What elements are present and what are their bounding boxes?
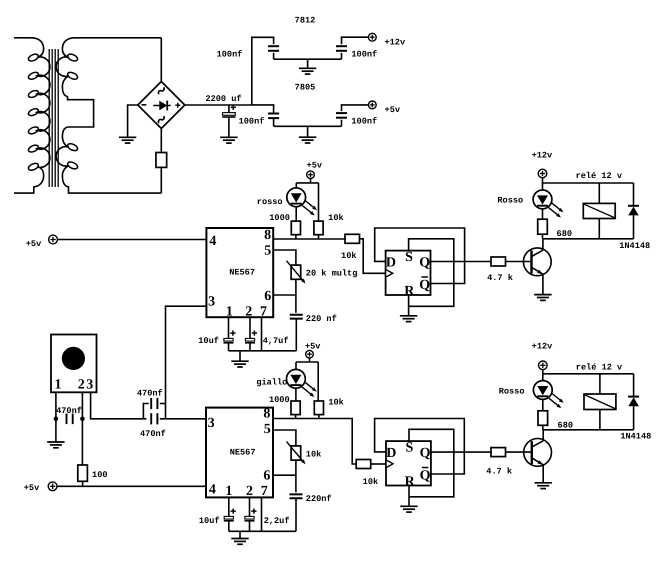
svg-text:4,7uf: 4,7uf <box>263 336 289 346</box>
svg-text:470nf: 470nf <box>137 388 163 398</box>
svg-text:4.7 k: 4.7 k <box>487 273 513 283</box>
svg-text:R: R <box>404 284 415 299</box>
svg-text:3: 3 <box>208 294 215 309</box>
wire to 7812 input <box>252 37 274 105</box>
wire R11 to collector rail <box>542 425 544 430</box>
ground U1 bottom <box>231 351 248 367</box>
U1 pin 8 number <box>264 228 271 243</box>
svg-text:10k: 10k <box>328 398 343 408</box>
IC U3 NE567 body <box>206 408 273 498</box>
capacitor C7 10uf <box>224 331 236 343</box>
capacitor C14 2,2uf <box>245 509 257 521</box>
wire C13 to rail <box>228 521 230 532</box>
wire U4 S loop <box>409 429 454 497</box>
wire bridge + output rail <box>185 104 252 106</box>
wire pin2 to R6 <box>81 419 83 465</box>
ground Q2 <box>535 483 552 489</box>
terminal +5v (giallo) <box>306 350 314 358</box>
label C4 100nf <box>239 116 265 126</box>
label +12v (power) <box>384 37 405 47</box>
U4 label Qbar <box>420 468 431 484</box>
resistor R8 10k <box>314 401 323 415</box>
svg-text:1000: 1000 <box>269 213 290 223</box>
wire split to R8 <box>317 362 319 401</box>
wire upper collector rail <box>543 238 634 240</box>
wire C11 to U3 pin3 <box>160 418 206 420</box>
U2 label Q <box>419 256 430 271</box>
U3 pin 7 number <box>261 484 268 499</box>
wire R6 to +5v rail <box>82 481 84 486</box>
svg-text:5: 5 <box>264 243 271 258</box>
svg-text:7812: 7812 <box>295 15 316 25</box>
svg-text:D: D <box>386 446 396 461</box>
ground under C1 <box>220 137 237 143</box>
ground MIC1 <box>47 442 64 448</box>
label R3 10k <box>341 251 356 261</box>
wire diode D7 bottom <box>633 406 635 430</box>
capacitor C9 470nf (mic) <box>67 414 73 425</box>
terminal +5v (U1 pin4) <box>49 235 58 244</box>
label +5v (giallo) <box>305 342 320 352</box>
relay K1 <box>583 203 615 218</box>
svg-text:Rosso: Rosso <box>499 386 525 396</box>
wire MIC1 pin2 down <box>81 392 83 419</box>
svg-text:4.7 k: 4.7 k <box>486 467 512 477</box>
capacitor C3 100nf (7812 out) <box>336 46 347 51</box>
label +12v (upper) <box>532 150 553 160</box>
wire U3 pin5 <box>273 430 296 446</box>
ground under bridge <box>119 137 136 143</box>
svg-text:relé 12 v: relé 12 v <box>576 362 622 372</box>
wire +5v giallo down <box>309 358 311 362</box>
label C2 100nf <box>217 50 243 60</box>
wire Q2 collector <box>542 430 544 441</box>
terminal +12v (upper) <box>538 169 547 178</box>
wire U2 S loop <box>409 239 454 306</box>
relay K2 <box>584 394 616 410</box>
wire split to LED giallo <box>295 362 297 370</box>
svg-text:680: 680 <box>557 229 572 239</box>
svg-text:S: S <box>406 441 414 456</box>
wire rail to LED D6 <box>542 374 544 381</box>
label R1 1000 <box>269 213 290 223</box>
U1 pin 2 number <box>245 305 252 320</box>
svg-text:NE567: NE567 <box>230 447 256 457</box>
label C12 220nf <box>306 494 332 504</box>
wire pin6 node to C12 <box>295 475 297 492</box>
wire U1 pin8 rail <box>273 238 345 240</box>
LED D5 giallo <box>287 369 317 397</box>
wire diode D3 bottom <box>633 215 635 238</box>
U1 pin 1 number <box>226 305 233 320</box>
svg-text:10uf: 10uf <box>198 336 219 346</box>
svg-text:rosso: rosso <box>257 197 283 207</box>
U3 pin 3 number <box>208 416 215 431</box>
wire bridge left to ground <box>128 105 138 137</box>
wire R4 to Q1 base <box>506 261 532 263</box>
wire MIC1 pin3 out <box>91 392 147 419</box>
svg-text:NE567: NE567 <box>229 267 255 277</box>
svg-text:220nf: 220nf <box>306 494 332 504</box>
wire C12 to bottom rail <box>295 498 297 531</box>
svg-text:100nf: 100nf <box>351 49 377 59</box>
wire +5v rail to U3 pin4 <box>57 485 206 487</box>
U3 pin 8 number <box>263 407 270 422</box>
label R8 10k <box>328 398 343 408</box>
wire R5 to collector rail <box>542 234 544 239</box>
resistor R9 10k (U3 out) <box>356 460 371 469</box>
label C3 100nf <box>351 49 377 59</box>
label R11 680 <box>558 421 573 431</box>
MIC1 pin 2 number <box>78 378 85 393</box>
label 7812 <box>295 15 316 25</box>
svg-text:10k: 10k <box>363 477 378 487</box>
MIC1 pin 3 number <box>86 378 93 393</box>
U3 pin 4 number <box>209 483 216 498</box>
wire U4 Qbar feedback to D <box>375 419 465 475</box>
label C5 100nf <box>351 116 377 126</box>
svg-text:6: 6 <box>263 469 270 484</box>
wire split bar <box>296 182 318 184</box>
svg-text:Rosso: Rosso <box>497 195 523 205</box>
U3 pin 1 number <box>225 484 232 499</box>
ground U2 <box>400 316 417 322</box>
wire secondary top to bridge <box>160 38 162 82</box>
U3 pin 2 number <box>246 484 253 499</box>
svg-text:2: 2 <box>245 305 252 320</box>
transformer T1 secondary upper winding and center tap <box>56 38 161 127</box>
bridge rectifier B1 <box>138 82 185 129</box>
wire +5v to U1 pin 4 <box>57 239 206 241</box>
wire +5v down to split <box>310 179 312 183</box>
wire split to LED <box>295 183 297 189</box>
wire lower collector rail <box>543 429 633 431</box>
wire C4 to rail <box>273 118 275 126</box>
wire U1 pin5 <box>273 250 296 265</box>
wire C8 to rail <box>249 343 251 351</box>
wire U3 pin7 to rail <box>261 497 263 531</box>
wire rail to LED D2 <box>542 183 544 191</box>
wire C3 to rail <box>341 53 343 59</box>
wire upper top rail <box>543 182 634 184</box>
wire D2 to R5 <box>542 208 544 219</box>
wire U1 pin7 to rail <box>261 317 263 351</box>
svg-text:4: 4 <box>209 234 216 249</box>
label R7 1000 <box>269 395 290 405</box>
U2 label D <box>386 255 396 270</box>
U2 label S <box>405 250 413 265</box>
U1 pin 3 number <box>208 294 215 309</box>
wire R9 to FF2 clock <box>371 463 386 465</box>
wire U4 Q output <box>431 451 491 453</box>
ground Q1 <box>534 295 551 301</box>
wire bridge bottom to fuse <box>160 129 162 153</box>
wire U2 Q output <box>431 261 492 263</box>
resistor R3 10k (U1 out) <box>345 234 360 243</box>
label R10 4.7 k <box>486 467 512 477</box>
wire vertical to U1 pin3 <box>166 306 207 419</box>
svg-text:10k: 10k <box>341 251 356 261</box>
U1 pin 7 number <box>260 305 267 320</box>
resistor R1 1000 <box>291 221 300 235</box>
ground U3 bottom <box>231 531 248 544</box>
label +5v (power) <box>385 105 400 115</box>
wire U1 pin1 <box>228 317 230 338</box>
svg-text:20 k multg: 20 k multg <box>306 268 358 278</box>
wire Q1 emitter to ground <box>542 274 544 294</box>
terminal +5v (power) <box>368 101 376 109</box>
wire C6 to bottom rail <box>295 319 297 351</box>
flip-flop U4 body <box>386 441 431 485</box>
capacitor C5 100nf (7805 out) <box>336 113 347 118</box>
wire C10 to vertical <box>160 403 166 405</box>
U4 label D <box>386 446 396 461</box>
capacitor C6 220 nf <box>290 315 303 319</box>
label rele 12 v (upper) <box>576 171 622 181</box>
wire R8 to rail <box>318 415 320 419</box>
U4 label Q <box>420 446 431 461</box>
wire R3 to FF1 clock <box>360 239 386 273</box>
svg-text:7: 7 <box>261 484 268 499</box>
IC U1 NE567 body <box>206 228 273 317</box>
terminal +12v (power) <box>368 33 376 41</box>
wire MIC1 pin1 down <box>55 392 57 419</box>
wire branch up to C10 <box>143 404 148 419</box>
potentiometer P1 20k multg <box>287 261 306 284</box>
svg-text:+5v: +5v <box>307 160 322 170</box>
label R2 10k <box>328 213 343 223</box>
label C14 2,2uf <box>264 516 290 526</box>
label U1 NE567 <box>229 267 255 277</box>
transistor Q2 <box>524 439 552 467</box>
wire C3 to +12v terminal <box>342 37 369 44</box>
junction dot pin2 <box>80 417 85 422</box>
wire R10 to Q2 base <box>506 451 532 453</box>
ground 7805 rail <box>299 126 316 143</box>
wire U1 pin2 <box>249 317 251 338</box>
label P1 20 k multg <box>306 268 358 278</box>
label rele 12 v (lower) <box>576 362 622 372</box>
wire C14 to rail <box>249 521 251 532</box>
wire D6 to R11 <box>542 399 544 411</box>
label C11 470nf <box>140 429 166 439</box>
svg-text:2: 2 <box>78 378 85 393</box>
wire C2 to rail <box>273 53 275 59</box>
label R4 4.7 k <box>487 273 513 283</box>
label C10 470nf <box>137 388 163 398</box>
svg-text:3: 3 <box>86 378 93 393</box>
label rosso <box>257 197 283 207</box>
wire C5 to +5v terminal <box>342 105 369 111</box>
label C9 470nf <box>56 406 82 416</box>
diode D3 1N4148 (upper) <box>628 206 639 216</box>
wire U3 pin8 rail <box>273 419 356 465</box>
svg-text:2,2uf: 2,2uf <box>264 516 290 526</box>
svg-text:giallo: giallo <box>256 377 287 387</box>
potentiometer P2 10k <box>287 442 306 465</box>
svg-text:10k: 10k <box>306 449 321 459</box>
svg-text:100: 100 <box>92 470 107 480</box>
U1 pin 6 number <box>264 289 271 304</box>
svg-text:+5v: +5v <box>385 105 400 115</box>
terminal +5v (rosso) <box>307 171 315 179</box>
label Rosso (lower) <box>499 386 525 396</box>
wire U2 R to ground <box>408 295 410 316</box>
ground 7812 rail <box>299 59 316 74</box>
wire R1 to rail <box>295 235 297 239</box>
U3 pin 6 number <box>263 469 270 484</box>
resistor R10 4.7 k <box>491 448 506 457</box>
wire U3 pin6 <box>273 474 296 476</box>
label R5 680 <box>557 229 572 239</box>
flip-flop U2 body <box>386 251 431 295</box>
transformer T1 primary winding <box>14 38 50 193</box>
wire pin1 to ground <box>55 419 57 442</box>
label 7805 <box>295 82 316 92</box>
wire U4 R to ground <box>408 486 410 507</box>
LED D2 Rosso (upper) <box>533 190 563 218</box>
wire U3 bottom rail <box>229 530 296 532</box>
label C8 4,7uf <box>263 336 289 346</box>
svg-text:2200 uf: 2200 uf <box>205 94 241 104</box>
fuse F1 <box>156 153 167 168</box>
wire C5 to rail <box>341 120 343 127</box>
transistor Q1 <box>523 248 551 276</box>
svg-text:Q: Q <box>420 469 431 484</box>
svg-text:7805: 7805 <box>295 82 316 92</box>
wire 7812 ground rail <box>274 58 342 60</box>
resistor R11 680 (lower) <box>538 411 548 426</box>
svg-text:5: 5 <box>264 422 271 437</box>
svg-text:+12v: +12v <box>384 37 405 47</box>
relay K1 coil wire top <box>598 183 600 203</box>
svg-text:470nf: 470nf <box>140 429 166 439</box>
svg-text:+12v: +12v <box>532 341 553 351</box>
terminal +12v (lower) <box>539 361 548 370</box>
LED D6 Rosso (lower) <box>533 381 563 409</box>
wire giallo split bar <box>296 361 318 363</box>
svg-text:470nf: 470nf <box>56 406 82 416</box>
label R9 10k <box>363 477 378 487</box>
resistor R7 1000 <box>291 401 300 415</box>
wire Q2 emitter to ground <box>542 465 544 483</box>
wire R7 to rail <box>295 415 297 419</box>
svg-text:3: 3 <box>208 416 215 431</box>
label P2 10k <box>306 449 321 459</box>
svg-text:8: 8 <box>263 407 270 422</box>
U3 pin 5 number <box>264 422 271 437</box>
resistor R5 680 (upper) <box>538 219 548 234</box>
wire 7805 ground rail <box>274 125 342 127</box>
U2 label Qbar <box>419 277 430 293</box>
capacitor C1 2200uf <box>222 105 236 117</box>
label D7 1N4148 <box>620 431 651 441</box>
svg-text:Q: Q <box>419 256 430 271</box>
wire C7 to rail <box>228 343 230 351</box>
wire split to R2 <box>318 183 320 221</box>
terminal +5v (bottom) <box>48 482 57 491</box>
label +5v (U1 pin4) <box>26 239 41 249</box>
wire U1 bottom rail <box>229 350 297 352</box>
label +12v (lower) <box>532 341 553 351</box>
capacitor C11 470nf (to U3) <box>151 413 157 424</box>
svg-text:Q: Q <box>419 278 430 293</box>
svg-text:8: 8 <box>264 228 271 243</box>
wire Q1 collector <box>542 239 544 250</box>
label +5v (bottom) <box>24 483 39 493</box>
svg-text:R: R <box>405 475 416 490</box>
label C6 220 nf <box>306 314 337 324</box>
capacitor C13 10uf <box>224 509 236 521</box>
capacitor C8 4,7uf <box>245 331 257 343</box>
wire LED to R1 <box>295 206 297 221</box>
resistor R6 100 <box>78 465 88 481</box>
svg-text:S: S <box>405 250 413 265</box>
label R6 100 <box>92 470 107 480</box>
wire diode D3 top <box>633 183 635 206</box>
svg-text:1000: 1000 <box>269 395 290 405</box>
svg-text:100nf: 100nf <box>351 116 377 126</box>
capacitor C2 100nf (7812 in) <box>268 46 279 51</box>
ground U4 <box>400 506 417 512</box>
wire +12v to lower rail <box>542 370 544 374</box>
wire pin6 node to C6 <box>295 295 297 313</box>
label Rosso (upper) <box>497 195 523 205</box>
svg-text:2: 2 <box>246 484 253 499</box>
relay K2 coil wire bottom <box>599 410 601 430</box>
label +5v (rosso) <box>307 160 322 170</box>
wire P2 to pin6 node <box>295 460 297 475</box>
svg-text:4: 4 <box>209 483 216 498</box>
U4 label R <box>405 475 416 490</box>
relay K1 coil wire bottom <box>598 219 600 239</box>
svg-text:1: 1 <box>226 305 233 320</box>
wire U3 pin2 <box>249 497 251 516</box>
U1 pin 5 number <box>264 243 271 258</box>
wire giallo LED to R7 <box>295 388 297 401</box>
MIC1 pin 1 number <box>55 378 62 393</box>
capacitor C12 220nf <box>290 494 303 498</box>
wire diode D7 top <box>633 374 635 397</box>
svg-text:100nf: 100nf <box>239 116 265 126</box>
wire U3 pin1 <box>228 497 230 516</box>
wire rail to C1 <box>228 105 230 113</box>
wire to 7805 input <box>252 105 274 114</box>
diode D7 1N4148 (lower) <box>628 397 639 407</box>
wire R2 to rail <box>318 235 320 239</box>
label D3 1N4148 <box>619 241 650 251</box>
label giallo <box>256 377 287 387</box>
microphone MIC1 body <box>51 335 97 393</box>
capacitor C10 470nf (to U1) <box>151 398 157 409</box>
resistor R2 10k <box>314 221 323 235</box>
wire lower top rail <box>543 373 634 375</box>
svg-text:Q: Q <box>420 446 431 461</box>
wire C1 to ground <box>228 117 230 137</box>
label U3 NE567 <box>230 447 256 457</box>
svg-text:100nf: 100nf <box>217 50 243 60</box>
svg-text:+5v: +5v <box>26 239 41 249</box>
wire U2 Qbar feedback to D <box>375 228 465 284</box>
svg-text:D: D <box>386 255 396 270</box>
label 2200 uf <box>205 94 241 104</box>
svg-text:1: 1 <box>55 378 62 393</box>
capacitor C4 100nf (7805 in) <box>268 114 279 119</box>
svg-text:relé 12 v: relé 12 v <box>576 171 622 181</box>
svg-text:1: 1 <box>225 484 232 499</box>
svg-text:220 nf: 220 nf <box>306 314 337 324</box>
junction dot pin1 <box>54 417 59 422</box>
